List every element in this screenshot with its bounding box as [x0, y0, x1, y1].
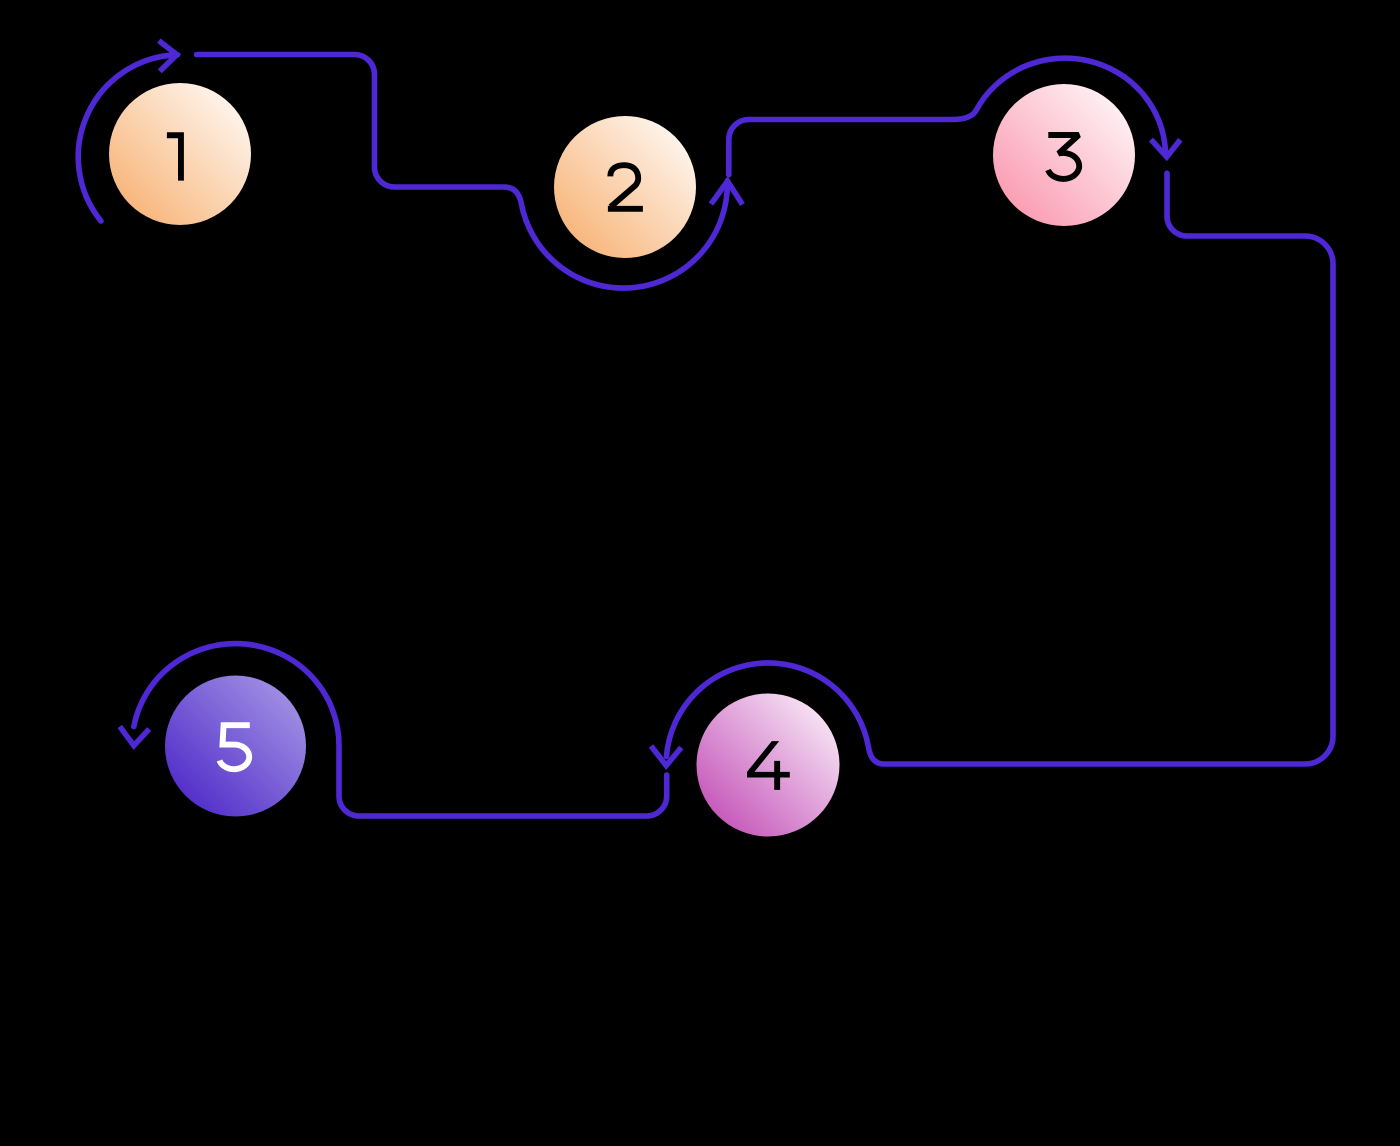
- wire from step 2 to step 3 (over-loop of circle 3): [729, 58, 1166, 175]
- arrowhead A4 (points down): [651, 746, 681, 766]
- node circle 5: [165, 676, 306, 817]
- label 5: [220, 725, 250, 769]
- node circle 1: [109, 83, 251, 225]
- label 2: [610, 165, 638, 207]
- node circle 4: [697, 694, 840, 837]
- arrowhead A5 (points down-left): [120, 727, 149, 746]
- wire from step 3 to step 4 (right rail + over-loop of circle 4): [666, 173, 1333, 764]
- wire from step 4 to step 5 (over-loop of circle 5): [134, 644, 667, 816]
- wire: arc around step 1: [78, 55, 177, 221]
- arrowhead A3 (points down): [1151, 140, 1180, 157]
- arrowhead A1 (points right): [159, 41, 177, 72]
- node circle 2: [554, 116, 696, 258]
- label 1: [167, 132, 184, 180]
- label 3: [1048, 135, 1079, 179]
- wire from step 1 to step 2 (under-loop of circle 2): [197, 55, 728, 289]
- label 4: [747, 741, 790, 790]
- node circle 3: [993, 84, 1135, 226]
- arrowhead A2 (points up): [711, 181, 743, 204]
